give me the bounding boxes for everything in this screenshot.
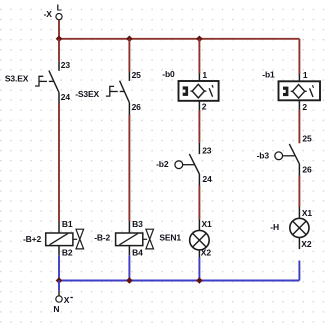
wire branch4 lamp to bottom bus [298,261,300,281]
proximity switch -b1 [279,81,321,100]
svg-text:B1: B1 [62,219,73,229]
pin X1 lead SEN1 [198,220,200,231]
svg-text:-b0: -b0 [162,69,175,79]
svg-text:-b1: -b1 [262,69,275,79]
pin 25 lead -S3EX [128,72,130,81]
svg-text:X2: X2 [201,248,212,258]
pin 1 lead -b1 [298,74,300,81]
solenoid coil -B+2 [46,229,84,249]
junction top bus branch 2 [126,36,133,43]
pin X1 lead -H [298,207,300,219]
wire top bus L [59,38,299,40]
wire branch2 bus to contact [128,39,130,72]
indicator lamp SEN1 [190,230,210,250]
pushbutton contact -b2 [175,154,199,174]
svg-text:1: 1 [202,70,207,80]
svg-text:2: 2 [302,102,307,112]
terminal -X (L) [44,3,63,20]
svg-text:23: 23 [61,60,71,70]
junction top bus branch 3 [196,36,203,43]
svg-text:X1: X1 [202,219,213,229]
pin X2 lead -H [298,237,300,249]
wire branch2 contact to coil [128,115,130,221]
svg-text:26: 26 [302,164,312,174]
svg-text:S3.EX: S3.EX [5,73,29,83]
limit switch contact -S3EX [106,81,129,103]
wire branch3 bus to sensor [198,39,200,74]
pin B4 lead [128,246,130,256]
pin 23 lead S3.EX [58,61,60,71]
svg-text:N: N [53,304,59,314]
wire branch1 coil to bottom bus [58,255,60,280]
svg-text:25: 25 [302,134,312,144]
pin 26 lead -S3EX [128,103,130,115]
svg-text:-H: -H [270,222,279,232]
pin B3 lead [128,221,130,233]
svg-text:-B+2: -B+2 [23,234,41,244]
svg-text:23: 23 [202,145,212,155]
limit switch contact S3.EX [35,71,59,93]
wire branch4 top bus corner down [298,39,300,74]
junction bottom bus branch 3 [196,277,203,284]
terminal X (N) [53,295,72,314]
wire branch1 bus to contact [58,39,60,62]
proximity switch -b0 [179,81,219,101]
wire branch3 lamp to bottom bus [198,258,200,281]
pin 2 lead -b1 [298,100,300,109]
wire branch3 sensor to pushbutton [198,110,200,143]
svg-text:X2: X2 [301,239,312,249]
svg-text:-B-2: -B-2 [94,233,110,243]
N terminal lead [58,291,60,296]
junction bottom bus branch 2 [126,277,133,284]
wire branch1 contact to coil [58,103,60,221]
svg-text:26: 26 [132,102,142,112]
indicator lamp -H [290,218,309,237]
wire branch3 pushbutton to lamp [198,186,200,220]
wire branch4 pushbutton to lamp [298,176,300,208]
svg-text:-b3: -b3 [257,151,270,161]
svg-text:B3: B3 [132,219,143,229]
svg-text:24: 24 [61,92,71,102]
svg-text:1: 1 [303,70,308,80]
svg-text:L: L [57,3,62,13]
junction bottom bus branch 1 [56,277,63,284]
wire branch4 sensor to pushbutton [298,110,300,144]
pin B2 lead [58,246,60,256]
pin 24 lead -b2 [198,174,200,186]
svg-text:X: X [64,295,70,305]
wire bottom bus N [59,280,299,282]
svg-text:-X: -X [44,9,53,19]
wire branch2 coil to bottom bus [128,255,130,280]
pin X2 lead SEN1 [198,250,200,258]
svg-text:2: 2 [202,102,207,112]
pin 2 lead -b0 [198,101,200,110]
wire L terminal to top bus [58,20,60,39]
pushbutton contact -b3 [275,144,300,164]
junction top bus branch 1 [56,36,63,43]
pin B1 lead [58,221,60,233]
pin 26 lead -b3 [298,164,300,176]
solenoid coil -B-2 [116,229,154,249]
pin 23 lead -b2 [198,143,200,155]
svg-text:X1: X1 [302,208,313,218]
svg-text:B4: B4 [132,247,143,257]
svg-text:-S3EX: -S3EX [75,89,99,99]
pin 1 lead -b0 [198,74,200,82]
svg-text:24: 24 [203,174,213,184]
svg-text:SEN1: SEN1 [159,233,181,243]
svg-text:25: 25 [132,70,142,80]
wire bottom bus to N terminal [58,281,60,291]
svg-text:-b2: -b2 [156,159,169,169]
svg-text:B2: B2 [62,247,73,257]
pin 24 lead S3.EX [58,93,60,103]
